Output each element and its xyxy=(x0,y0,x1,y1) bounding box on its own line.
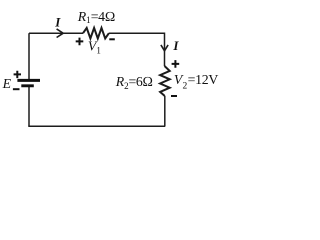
wire left lower segment xyxy=(28,87,30,126)
svg-text:R2=6Ω: R2=6Ω xyxy=(115,74,153,91)
svg-text:R1=4Ω: R1=4Ω xyxy=(77,9,115,25)
R2 plus sign xyxy=(172,60,180,68)
wire top-left segment xyxy=(29,32,83,34)
wire bottom segment xyxy=(28,125,165,127)
battery E long plate xyxy=(17,79,40,82)
svg-text:I: I xyxy=(172,38,179,53)
wire top-right segment xyxy=(109,32,165,34)
resistor R1 xyxy=(83,28,109,39)
R2 minus sign xyxy=(171,95,177,97)
battery plus sign xyxy=(14,71,21,78)
resistor R2 xyxy=(160,66,170,96)
R1 minus sign xyxy=(109,38,115,40)
wire right upper segment xyxy=(164,33,166,67)
R1 plus sign xyxy=(76,38,84,46)
wire right lower segment xyxy=(164,96,166,126)
wire left upper segment xyxy=(28,33,30,79)
battery minus sign xyxy=(13,88,20,90)
current arrow I top xyxy=(57,29,64,38)
svg-text:I: I xyxy=(54,14,61,29)
current arrow I right xyxy=(161,45,168,51)
svg-text:E: E xyxy=(2,76,12,91)
battery E short plate xyxy=(21,84,34,87)
